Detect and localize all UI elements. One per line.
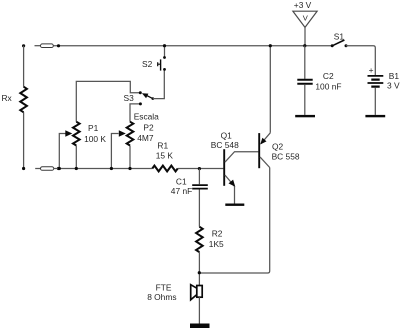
- svg-text:R1: R1: [157, 140, 168, 150]
- svg-text:S1: S1: [334, 31, 345, 41]
- capacitor C2: [297, 80, 312, 84]
- svg-text:4M7: 4M7: [137, 133, 154, 143]
- wire top rail: [53, 45, 332, 47]
- node Q2 rail junction: [269, 44, 272, 47]
- battery B1: [368, 76, 384, 87]
- wire P2 top from S3 lower contact: [130, 104, 140, 122]
- svg-text:Q1: Q1: [221, 130, 233, 140]
- svg-text:1K5: 1K5: [209, 239, 224, 249]
- potentiometer P2: [111, 122, 133, 169]
- svg-text:P2: P2: [143, 122, 154, 132]
- svg-text:S2: S2: [142, 59, 153, 69]
- svg-text:100 nF: 100 nF: [315, 82, 341, 92]
- node bottom rail junction after oval: [57, 167, 60, 170]
- wire rail to C2: [304, 46, 306, 79]
- svg-text:C1: C1: [176, 176, 187, 186]
- ground C2: [295, 115, 315, 117]
- capacitor C1: [192, 185, 208, 189]
- wire bottom rail: [54, 168, 224, 170]
- node P1 wiper junction: [58, 167, 61, 170]
- wire B1 to ground: [374, 88, 376, 115]
- wire junction to C1: [198, 169, 200, 185]
- wire S3 pivot to S2 bottom: [153, 69, 165, 98]
- terminal oval top probe: [35, 44, 54, 48]
- wire Q2 emitter from rail: [269, 46, 271, 133]
- switch S2 pushbutton: [158, 56, 166, 71]
- potentiometer P1: [59, 122, 79, 169]
- wire R2 to speaker node: [198, 252, 200, 285]
- power +3V supply: [293, 11, 317, 46]
- svg-text:Q2: Q2: [272, 141, 284, 151]
- svg-text:Escala: Escala: [134, 111, 159, 121]
- node P2 bottom junction: [128, 167, 131, 170]
- ground Q1 emitter: [225, 204, 244, 206]
- svg-text:+3 V: +3 V: [294, 0, 312, 10]
- svg-text:B1: B1: [389, 71, 400, 81]
- node speaker junction: [198, 271, 201, 274]
- svg-text:3 V: 3 V: [387, 81, 400, 91]
- node top rail junction after oval: [57, 44, 60, 47]
- resistor Rx: [20, 87, 27, 113]
- wire Q1 emitter to ground: [234, 186, 236, 203]
- transistor Q2: [259, 133, 270, 168]
- speaker FTE: [191, 285, 203, 300]
- node S2 rail junction: [163, 44, 166, 47]
- node P1 bottom junction: [75, 167, 78, 170]
- svg-text:C2: C2: [323, 71, 334, 81]
- node P2 wiper junction: [110, 167, 113, 170]
- node bottom-left probe dot: [22, 167, 25, 170]
- wire speaker to ground: [198, 297, 200, 323]
- svg-text:P1: P1: [88, 123, 99, 133]
- ground speaker: [190, 324, 210, 328]
- svg-text:+: +: [369, 65, 374, 75]
- resistor R1: [152, 166, 177, 172]
- wire Q2 collector down and left: [199, 168, 269, 274]
- svg-text:BC 548: BC 548: [211, 140, 239, 150]
- node top-left probe dot: [22, 44, 25, 47]
- svg-text:BC 558: BC 558: [272, 151, 300, 161]
- switch S1: [331, 40, 348, 47]
- node +3V rail junction: [303, 44, 306, 47]
- svg-text:15 K: 15 K: [156, 151, 174, 161]
- wire P1 top to S3 upper contact: [76, 81, 140, 121]
- wire C1 to R2: [198, 190, 200, 227]
- svg-text:47 nF: 47 nF: [171, 186, 192, 196]
- ground B1: [365, 115, 385, 117]
- terminal oval bottom probe: [35, 167, 54, 171]
- transistor Q1: [224, 149, 258, 187]
- svg-text:S3: S3: [124, 93, 135, 103]
- svg-text:8 Ohms: 8 Ohms: [147, 292, 176, 302]
- resistor R2: [196, 227, 203, 252]
- wire S2 top: [164, 46, 166, 58]
- node C1 junction: [198, 167, 201, 170]
- svg-text:Rx: Rx: [2, 93, 13, 103]
- wire P2 bottom: [129, 146, 131, 169]
- svg-text:100 K: 100 K: [84, 134, 106, 144]
- wire C2 to ground: [304, 85, 306, 115]
- switch S3: [139, 91, 154, 105]
- svg-text:R2: R2: [212, 229, 223, 239]
- wire left probe vertical: [23, 46, 25, 169]
- wire S1 to battery: [346, 46, 375, 75]
- wire P1 bottom: [75, 146, 77, 169]
